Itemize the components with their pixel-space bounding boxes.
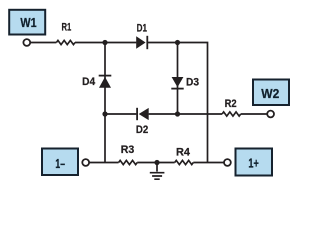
svg-text:1–: 1–: [55, 157, 65, 171]
svg-text:R4: R4: [176, 146, 191, 158]
svg-text:D3: D3: [186, 77, 199, 89]
svg-text:W2: W2: [261, 87, 279, 101]
svg-text:W1: W1: [20, 16, 36, 30]
svg-text:D2: D2: [136, 124, 148, 136]
svg-text:R3: R3: [121, 144, 135, 156]
svg-text:D1: D1: [137, 23, 147, 35]
svg-text:1+: 1+: [248, 157, 258, 171]
svg-text:R2: R2: [225, 98, 237, 110]
svg-text:R1: R1: [62, 22, 72, 34]
svg-text:D4: D4: [82, 76, 96, 88]
